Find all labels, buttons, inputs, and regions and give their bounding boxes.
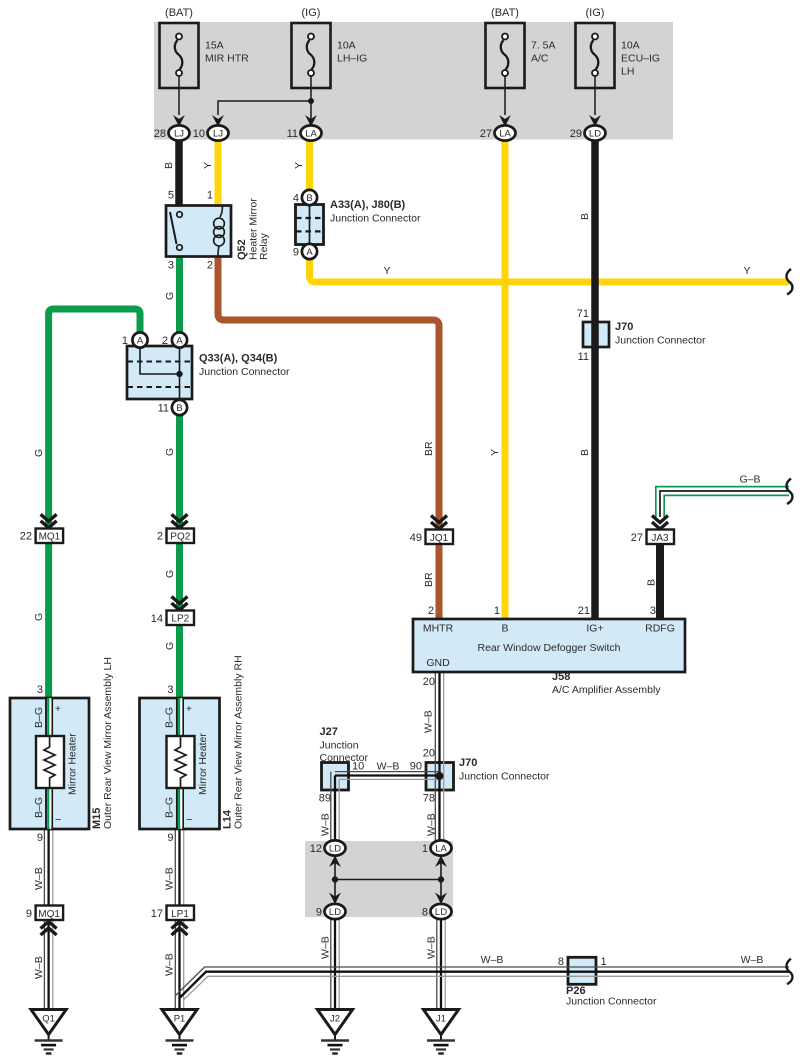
svg-text:27: 27 — [480, 128, 492, 140]
svg-text:ECU–IG: ECU–IG — [621, 53, 660, 65]
wire G relay pin3 to Q33 pin2 — [176, 256, 183, 332]
svg-text:G: G — [164, 292, 176, 300]
svg-text:LD: LD — [589, 129, 601, 140]
svg-text:(BAT): (BAT) — [491, 7, 519, 19]
svg-text:G: G — [164, 570, 176, 578]
svg-text:10A: 10A — [337, 40, 356, 52]
svg-text:B: B — [176, 403, 182, 414]
svg-text:B: B — [163, 162, 175, 169]
junction connector J70 lower box — [426, 763, 454, 791]
connector 14 LP2 — [151, 597, 194, 626]
svg-text:15A: 15A — [205, 40, 224, 52]
svg-text:10: 10 — [352, 761, 364, 773]
svg-text:GND: GND — [426, 657, 450, 669]
wire Y fuse3 to defogger switch pin1 — [502, 139, 509, 619]
svg-text:B–G: B–G — [164, 707, 176, 728]
break on Y wire — [786, 269, 792, 295]
svg-text:27: 27 — [631, 532, 643, 544]
svg-text:W–B: W–B — [164, 953, 176, 976]
svg-text:W–B: W–B — [320, 936, 332, 959]
svg-text:Y: Y — [383, 265, 390, 277]
svg-text:8: 8 — [422, 907, 428, 919]
svg-text:(IG): (IG) — [586, 7, 605, 19]
wire G Q33 pin1 branch to left, down to MQ1 and M15 — [49, 309, 140, 698]
node 9 LD — [316, 904, 346, 919]
svg-text:1: 1 — [422, 843, 428, 855]
svg-text:89: 89 — [319, 793, 331, 805]
terminal arrows — [329, 856, 341, 868]
svg-text:J58: J58 — [552, 671, 570, 683]
node 10 LJ — [193, 125, 229, 140]
svg-text:90: 90 — [410, 761, 422, 773]
svg-text:4: 4 — [293, 193, 299, 205]
svg-text:9: 9 — [293, 247, 299, 259]
svg-text:8: 8 — [558, 956, 564, 968]
svg-text:Rear Window Defogger Switch: Rear Window Defogger Switch — [478, 642, 621, 654]
svg-text:Q52: Q52 — [236, 239, 248, 260]
svg-text:2: 2 — [157, 531, 163, 543]
wire Y fuse2b through A33 to right break — [310, 139, 790, 282]
svg-text:1: 1 — [122, 335, 128, 347]
svg-text:−: − — [186, 814, 192, 826]
svg-text:78: 78 — [423, 793, 435, 805]
svg-text:Mirror Heater: Mirror Heater — [197, 733, 209, 795]
svg-text:11: 11 — [578, 351, 589, 363]
svg-text:G: G — [33, 613, 45, 621]
svg-text:B: B — [306, 193, 312, 204]
svg-text:11: 11 — [158, 403, 169, 415]
svg-text:22: 22 — [20, 531, 32, 543]
wire B JA3 to switch RDFG — [656, 544, 664, 620]
svg-text:B: B — [646, 579, 658, 586]
svg-text:BR: BR — [423, 441, 435, 456]
svg-text:P1: P1 — [174, 1014, 186, 1025]
ground P1 — [162, 1010, 197, 1054]
svg-text:W–B: W–B — [33, 867, 45, 890]
svg-text:J70: J70 — [459, 757, 477, 769]
svg-text:1: 1 — [494, 605, 500, 617]
svg-text:Relay: Relay — [258, 232, 270, 260]
svg-text:LA: LA — [435, 844, 447, 855]
break on W-B bus — [786, 959, 792, 985]
svg-text:MIR HTR: MIR HTR — [205, 53, 249, 65]
svg-text:Q33(A), Q34(B): Q33(A), Q34(B) — [199, 353, 278, 365]
fuse 10A LH-IG — [212, 7, 367, 127]
connector 2 PQ2 — [157, 514, 194, 543]
break on G-B wire — [786, 479, 792, 505]
svg-text:9: 9 — [26, 908, 32, 920]
wire B-G inside (upper) — [177, 698, 183, 829]
wire B fuse4 to defogger switch pin21 — [591, 139, 599, 619]
svg-text:Outer Rear View Mirror Assembl: Outer Rear View Mirror Assembly RH — [233, 655, 245, 829]
svg-text:B–G: B–G — [33, 707, 45, 728]
wire W-B ECU pin8 to ground J1 — [437, 919, 445, 1010]
svg-text:Y: Y — [489, 449, 501, 456]
svg-text:3: 3 — [650, 605, 656, 617]
svg-text:Y: Y — [743, 265, 750, 277]
svg-text:LD: LD — [329, 844, 341, 855]
svg-text:W–B: W–B — [423, 710, 435, 733]
wire W-B switch GND down through lower J70 — [435, 672, 443, 841]
svg-text:+: + — [186, 704, 192, 715]
svg-text:LH–IG: LH–IG — [337, 53, 367, 65]
svg-text:W–B: W–B — [164, 867, 176, 890]
svg-text:11: 11 — [287, 128, 298, 140]
svg-text:A33(A), J80(B): A33(A), J80(B) — [330, 199, 406, 211]
svg-text:Mirror Heater: Mirror Heater — [67, 733, 79, 795]
svg-text:9: 9 — [37, 832, 43, 844]
svg-text:IG+: IG+ — [586, 623, 603, 635]
wire W-B ground bus horizontal with diagonal jog to P1 wire — [175, 967, 789, 1000]
svg-text:W–B: W–B — [320, 813, 332, 836]
node 28 LJ — [154, 125, 190, 140]
wire G-B from right break to JA3 (striped green/black) — [656, 487, 789, 517]
wire W-B L14 to LP1 to ground P1 — [175, 829, 183, 1010]
svg-text:(IG): (IG) — [302, 7, 321, 19]
svg-text:B: B — [579, 213, 591, 220]
node 1 LA — [422, 840, 452, 855]
svg-text:A/C: A/C — [531, 53, 549, 65]
svg-text:Y: Y — [293, 162, 305, 169]
svg-text:Junction Connector: Junction Connector — [459, 771, 550, 783]
fuse 7.5A A/C — [486, 7, 556, 127]
svg-text:1: 1 — [601, 956, 607, 968]
svg-text:B–G: B–G — [33, 797, 45, 818]
svg-text:10A: 10A — [621, 40, 640, 52]
svg-text:LA: LA — [305, 129, 317, 140]
wire W-B ECU pin9 to ground J2 — [331, 919, 339, 1010]
wire G Q33 pin11 down through PQ2, LP2 to L14 — [176, 415, 183, 698]
junction connector P26 box — [568, 957, 596, 984]
junction connector J27 box — [322, 763, 349, 791]
wire W-B J27 to J70 horizontal and J27 down to ECU pin12 — [331, 772, 440, 841]
ground J1 — [423, 1010, 458, 1054]
svg-text:Junction Connector: Junction Connector — [199, 366, 290, 378]
svg-text:Junction Connector: Junction Connector — [566, 996, 657, 1008]
svg-text:MHTR: MHTR — [423, 623, 454, 635]
wire W-B M15 to MQ1 to ground Q1 — [44, 829, 52, 1010]
svg-text:B: B — [579, 449, 591, 456]
svg-text:7. 5A: 7. 5A — [531, 40, 556, 52]
node 27 LA — [480, 125, 516, 140]
connector 27 JA3 — [631, 516, 674, 545]
fuse 15A MIR HTR — [160, 7, 250, 127]
svg-text:Y: Y — [202, 162, 214, 169]
svg-text:A: A — [137, 336, 144, 347]
svg-text:10: 10 — [193, 128, 205, 140]
svg-text:B: B — [501, 623, 508, 635]
wire B fuse1 to relay pin5 — [175, 139, 183, 206]
svg-text:G: G — [164, 448, 176, 456]
svg-text:LP2: LP2 — [171, 614, 189, 625]
svg-text:W–B: W–B — [481, 954, 504, 966]
svg-text:LJ: LJ — [213, 129, 223, 140]
ECU internal grey band (lower) — [305, 841, 453, 917]
svg-text:RDFG: RDFG — [645, 623, 675, 635]
svg-text:W–B: W–B — [33, 956, 45, 979]
svg-text:28: 28 — [154, 128, 166, 140]
mirror heater resistor — [36, 736, 64, 788]
svg-text:Q1: Q1 — [42, 1014, 55, 1025]
svg-text:J1: J1 — [436, 1014, 446, 1025]
mirror heater resistor — [167, 736, 195, 788]
svg-text:1: 1 — [207, 190, 213, 202]
connector 17 LP1 — [151, 906, 194, 936]
fuse 10A ECU-IG LH — [576, 7, 661, 127]
svg-text:JQ1: JQ1 — [430, 533, 449, 544]
svg-text:12: 12 — [310, 843, 322, 855]
svg-text:Outer Rear View Mirror Assembl: Outer Rear View Mirror Assembly LH — [102, 657, 114, 829]
svg-text:LP1: LP1 — [171, 909, 189, 920]
svg-text:W–B: W–B — [426, 813, 438, 836]
svg-text:3: 3 — [37, 684, 43, 696]
svg-text:JA3: JA3 — [651, 533, 669, 544]
svg-text:W–B: W–B — [426, 936, 438, 959]
svg-text:14: 14 — [151, 613, 163, 625]
svg-text:A: A — [176, 336, 183, 347]
svg-text:5: 5 — [168, 190, 174, 202]
svg-text:PQ2: PQ2 — [170, 532, 190, 543]
internal link lines with junction dots — [335, 855, 441, 902]
svg-text:A/C Amplifier Assembly: A/C Amplifier Assembly — [552, 684, 661, 696]
svg-text:9: 9 — [316, 907, 322, 919]
connector 49 JQ1 — [410, 516, 453, 545]
svg-text:20: 20 — [423, 676, 435, 688]
wire Y fuse2a to relay pin1 — [215, 139, 222, 206]
svg-text:W–B: W–B — [377, 761, 400, 773]
svg-text:A: A — [306, 247, 313, 258]
svg-text:J70: J70 — [615, 321, 633, 333]
wire B-G inside (upper) — [46, 698, 52, 829]
node 11 LA — [287, 125, 322, 140]
svg-text:LJ: LJ — [174, 129, 184, 140]
svg-text:MQ1: MQ1 — [39, 532, 61, 543]
node 29 LD — [570, 125, 606, 140]
svg-text:71: 71 — [577, 308, 589, 320]
svg-text:G: G — [33, 449, 45, 457]
svg-text:21: 21 — [578, 605, 590, 617]
svg-text:2: 2 — [162, 335, 168, 347]
power supply grey band (top) — [154, 22, 673, 140]
svg-text:17: 17 — [151, 908, 163, 920]
svg-text:3: 3 — [167, 684, 173, 696]
svg-text:LH: LH — [621, 66, 634, 78]
svg-text:G–B: G–B — [739, 474, 760, 486]
svg-text:49: 49 — [410, 532, 422, 544]
svg-text:9: 9 — [167, 832, 173, 844]
node 12 LD — [310, 840, 346, 855]
ground J2 — [317, 1010, 352, 1054]
svg-text:(BAT): (BAT) — [165, 7, 193, 19]
svg-text:LA: LA — [499, 129, 511, 140]
svg-text:29: 29 — [570, 128, 582, 140]
svg-text:B–G: B–G — [164, 797, 176, 818]
node 8 LD — [422, 904, 452, 919]
wire BR relay pin2 to JQ1 to switch MHTR — [218, 256, 439, 619]
svg-text:J27: J27 — [320, 726, 338, 738]
svg-text:Junction Connector: Junction Connector — [615, 335, 706, 347]
svg-text:20: 20 — [423, 748, 435, 760]
connector 9 MQ1 — [26, 906, 63, 936]
svg-text:2: 2 — [207, 260, 213, 272]
svg-text:3: 3 — [168, 260, 174, 272]
svg-text:2: 2 — [428, 605, 434, 617]
svg-text:J2: J2 — [330, 1014, 340, 1025]
svg-text:Junction: Junction — [320, 740, 359, 752]
svg-text:W–B: W–B — [741, 954, 764, 966]
svg-text:BR: BR — [423, 572, 435, 587]
svg-text:LD: LD — [329, 907, 341, 918]
ground Q1 — [31, 1010, 66, 1054]
svg-text:MQ1: MQ1 — [38, 909, 60, 920]
connector 22 MQ1 — [20, 514, 63, 543]
svg-text:−: − — [55, 814, 61, 826]
svg-text:+: + — [55, 704, 61, 715]
svg-text:Junction Connector: Junction Connector — [330, 213, 421, 225]
svg-text:LD: LD — [435, 907, 447, 918]
svg-text:G: G — [164, 642, 176, 650]
